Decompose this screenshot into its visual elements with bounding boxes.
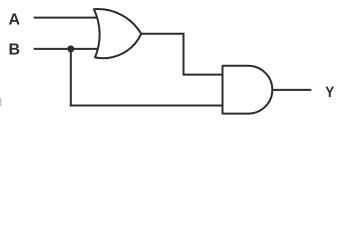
- wire Y output: [272, 89, 312, 91]
- wire B branch horizontal to AND: [70, 105, 223, 107]
- wire OR to AND horizontal: [183, 74, 224, 76]
- scan artifact tick: [0, 98, 1, 106]
- svg-text:A: A: [9, 11, 21, 28]
- or-gate U1: [94, 9, 141, 58]
- wire OR to AND vertical: [183, 34, 185, 75]
- svg-text:B: B: [9, 42, 21, 59]
- wire B branch vertical: [70, 49, 72, 106]
- junction dot on B: [67, 45, 74, 52]
- wire A input: [34, 17, 99, 19]
- and-gate U2: [223, 66, 273, 114]
- wire B input: [34, 48, 99, 50]
- svg-text:Y: Y: [325, 84, 334, 101]
- wire OR output: [141, 33, 185, 35]
